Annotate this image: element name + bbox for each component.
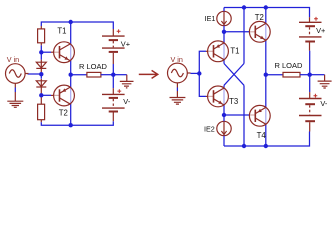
node output [69, 73, 73, 77]
svg-text:V-: V- [320, 99, 328, 108]
ground mid (left) [120, 75, 134, 88]
wire mid rail left [71, 74, 87, 76]
battery V+ (left) [102, 29, 125, 64]
resistor R2 [38, 97, 45, 122]
resistor R1 [38, 26, 45, 45]
node J3 [39, 93, 43, 97]
node top rail x266 [264, 5, 268, 9]
node bottom rail x266 [264, 144, 268, 148]
node mid battery (right) [308, 73, 312, 77]
battery V+ (right) [299, 17, 322, 51]
wire mid node to ground (right) [310, 74, 325, 76]
transistor T2 (right, NPN) [249, 21, 270, 42]
svg-text:IE2: IE2 [204, 124, 215, 133]
wire T4 emitter-collector column [265, 75, 267, 146]
svg-text:V+: V+ [316, 26, 325, 35]
node IE1/T1e/T2b [222, 30, 226, 34]
svg-text:R LOAD: R LOAD [275, 61, 304, 70]
svg-text:V in: V in [7, 55, 19, 64]
node J2 [39, 72, 43, 76]
wire bottom rail left [41, 121, 113, 125]
resistor R LOAD (left) [87, 72, 101, 77]
wire T3 collector-emitter column [223, 85, 225, 115]
wire mid rail right [101, 74, 113, 76]
wire T1 base [41, 51, 51, 53]
ground below source [7, 92, 23, 107]
wire mid rail left (right circuit) [266, 74, 283, 76]
ground below source (right) [170, 91, 186, 104]
wire mid node to ground [113, 74, 127, 76]
X crossing wires [224, 64, 244, 86]
battery V- (right) [299, 92, 322, 131]
svg-text:T1: T1 [57, 26, 66, 35]
plus mark V- (right) [314, 94, 318, 98]
node T3e/IE2/T4b [222, 113, 226, 117]
wire T2 emitter-collector column [70, 75, 72, 126]
wire T1 emitter-collector column [223, 32, 225, 64]
wire source to input column [191, 72, 200, 74]
resistor R LOAD (right) [283, 72, 300, 77]
node J1 [39, 50, 43, 54]
wire source to ground [14, 88, 16, 93]
svg-text:T4: T4 [257, 131, 267, 140]
source V in (right) [168, 63, 191, 87]
svg-text:T2: T2 [255, 13, 264, 22]
wire IE1 bottom [223, 26, 225, 32]
source V in (left) [6, 64, 29, 88]
node bottom rail x244 [242, 144, 246, 148]
node bottom rail [69, 123, 73, 127]
wire mid rail right (right circuit) [300, 74, 310, 76]
svg-text:IE1: IE1 [205, 14, 216, 23]
wire input column [199, 51, 206, 96]
transistor T1 (right, PNP) [206, 41, 228, 62]
transistor T1 (left, NPN) [51, 42, 74, 63]
wire column x244 lower [243, 85, 245, 146]
wire to T4 base [224, 114, 249, 116]
battery V- (left) [102, 88, 125, 121]
transistor T3 (right, NPN) [206, 86, 228, 107]
node top rail x244 [242, 5, 246, 9]
svg-text:T3: T3 [229, 97, 238, 106]
wire mid node to V- [112, 75, 114, 89]
diode D1 [36, 60, 46, 73]
wire source to ground (right) [176, 88, 178, 92]
wire J1 to D1 [40, 52, 42, 59]
wire V+ to mid node [112, 64, 114, 75]
arrow between circuits [139, 70, 158, 78]
wire top rail left [41, 22, 113, 29]
svg-text:T2: T2 [59, 109, 68, 118]
wire IE2 top [223, 115, 225, 121]
node top rail [69, 20, 73, 24]
plus mark V- (left) [117, 89, 121, 93]
wire V+ to mid node (right) [309, 51, 311, 75]
wire column x244 upper [243, 8, 245, 64]
svg-text:R LOAD: R LOAD [79, 62, 108, 71]
wire T1 collector-emitter column [70, 22, 72, 75]
plus mark V+ (right) [314, 17, 318, 21]
wire R1 to node [40, 45, 42, 52]
node mid battery [111, 73, 115, 77]
wire T2 base [41, 94, 51, 96]
bottom rail (right) [224, 132, 310, 147]
wire Vin to J2 [28, 73, 42, 75]
node input [197, 71, 201, 75]
wire IE1 top [223, 8, 225, 12]
svg-text:V+: V+ [121, 39, 130, 48]
top rail (right) [224, 8, 310, 18]
svg-text:T1: T1 [230, 46, 239, 55]
wire T2 collector-emitter column [265, 8, 267, 75]
current source IE1 [217, 11, 231, 25]
wire J2 to D2 [40, 74, 42, 79]
transistor T2 (left, PNP) [51, 85, 74, 106]
wire mid node to V- (right) [309, 75, 311, 92]
svg-text:V-: V- [123, 97, 131, 106]
ground mid (right) [318, 75, 332, 88]
wire IE2 bottom [223, 136, 225, 146]
node output (right) [264, 73, 268, 77]
transistor T4 (right, PNP) [249, 105, 270, 126]
current source IE2 [217, 121, 231, 135]
plus mark V+ (left) [117, 29, 121, 33]
diode D2 [36, 79, 46, 94]
wire to T2 base [224, 31, 249, 33]
